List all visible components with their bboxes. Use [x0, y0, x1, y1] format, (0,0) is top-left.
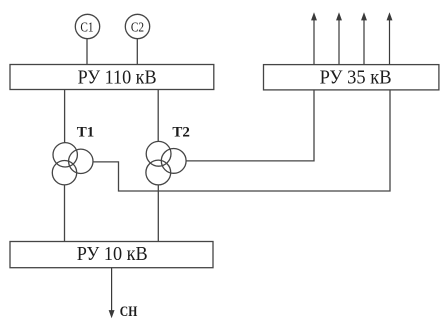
transformer T1 [52, 143, 93, 185]
svg-text:РУ 10 кВ: РУ 10 кВ [77, 243, 148, 265]
svg-text:С2: С2 [131, 19, 144, 34]
bus РУ 110 кВ [10, 65, 214, 90]
source C2 [125, 14, 149, 38]
feeder arrow 3 on bus 35 [362, 14, 366, 65]
bus РУ 35 кВ [264, 65, 439, 90]
wire C1 to bus 110 [86, 39, 88, 65]
wire C2 to bus 110 [136, 39, 138, 65]
wire T2 MV winding to bus 35 [186, 90, 314, 161]
feeder arrow 4 on bus 35 [387, 14, 391, 65]
bus РУ 10 кВ [10, 242, 213, 268]
arrow to auxiliaries СН [110, 268, 114, 317]
wire T2 LV winding to bus 10 [157, 185, 159, 242]
transformer T2 [146, 141, 186, 185]
wire bus110 to T1 [64, 90, 66, 143]
svg-text:РУ 35 кВ: РУ 35 кВ [320, 67, 392, 89]
wire T1 MV winding to bus 35 [93, 90, 390, 191]
wire T1 LV winding to bus 10 [64, 185, 66, 242]
svg-text:СН: СН [120, 304, 138, 320]
svg-text:С1: С1 [80, 19, 93, 34]
svg-text:РУ 110 кВ: РУ 110 кВ [78, 67, 157, 89]
feeder arrow 2 on bus 35 [337, 14, 341, 65]
wire bus110 to T2 [157, 90, 159, 142]
source C1 [75, 14, 99, 38]
svg-text:Т1: Т1 [77, 125, 95, 141]
svg-text:Т2: Т2 [172, 125, 190, 141]
feeder arrow 1 on bus 35 [312, 14, 316, 65]
